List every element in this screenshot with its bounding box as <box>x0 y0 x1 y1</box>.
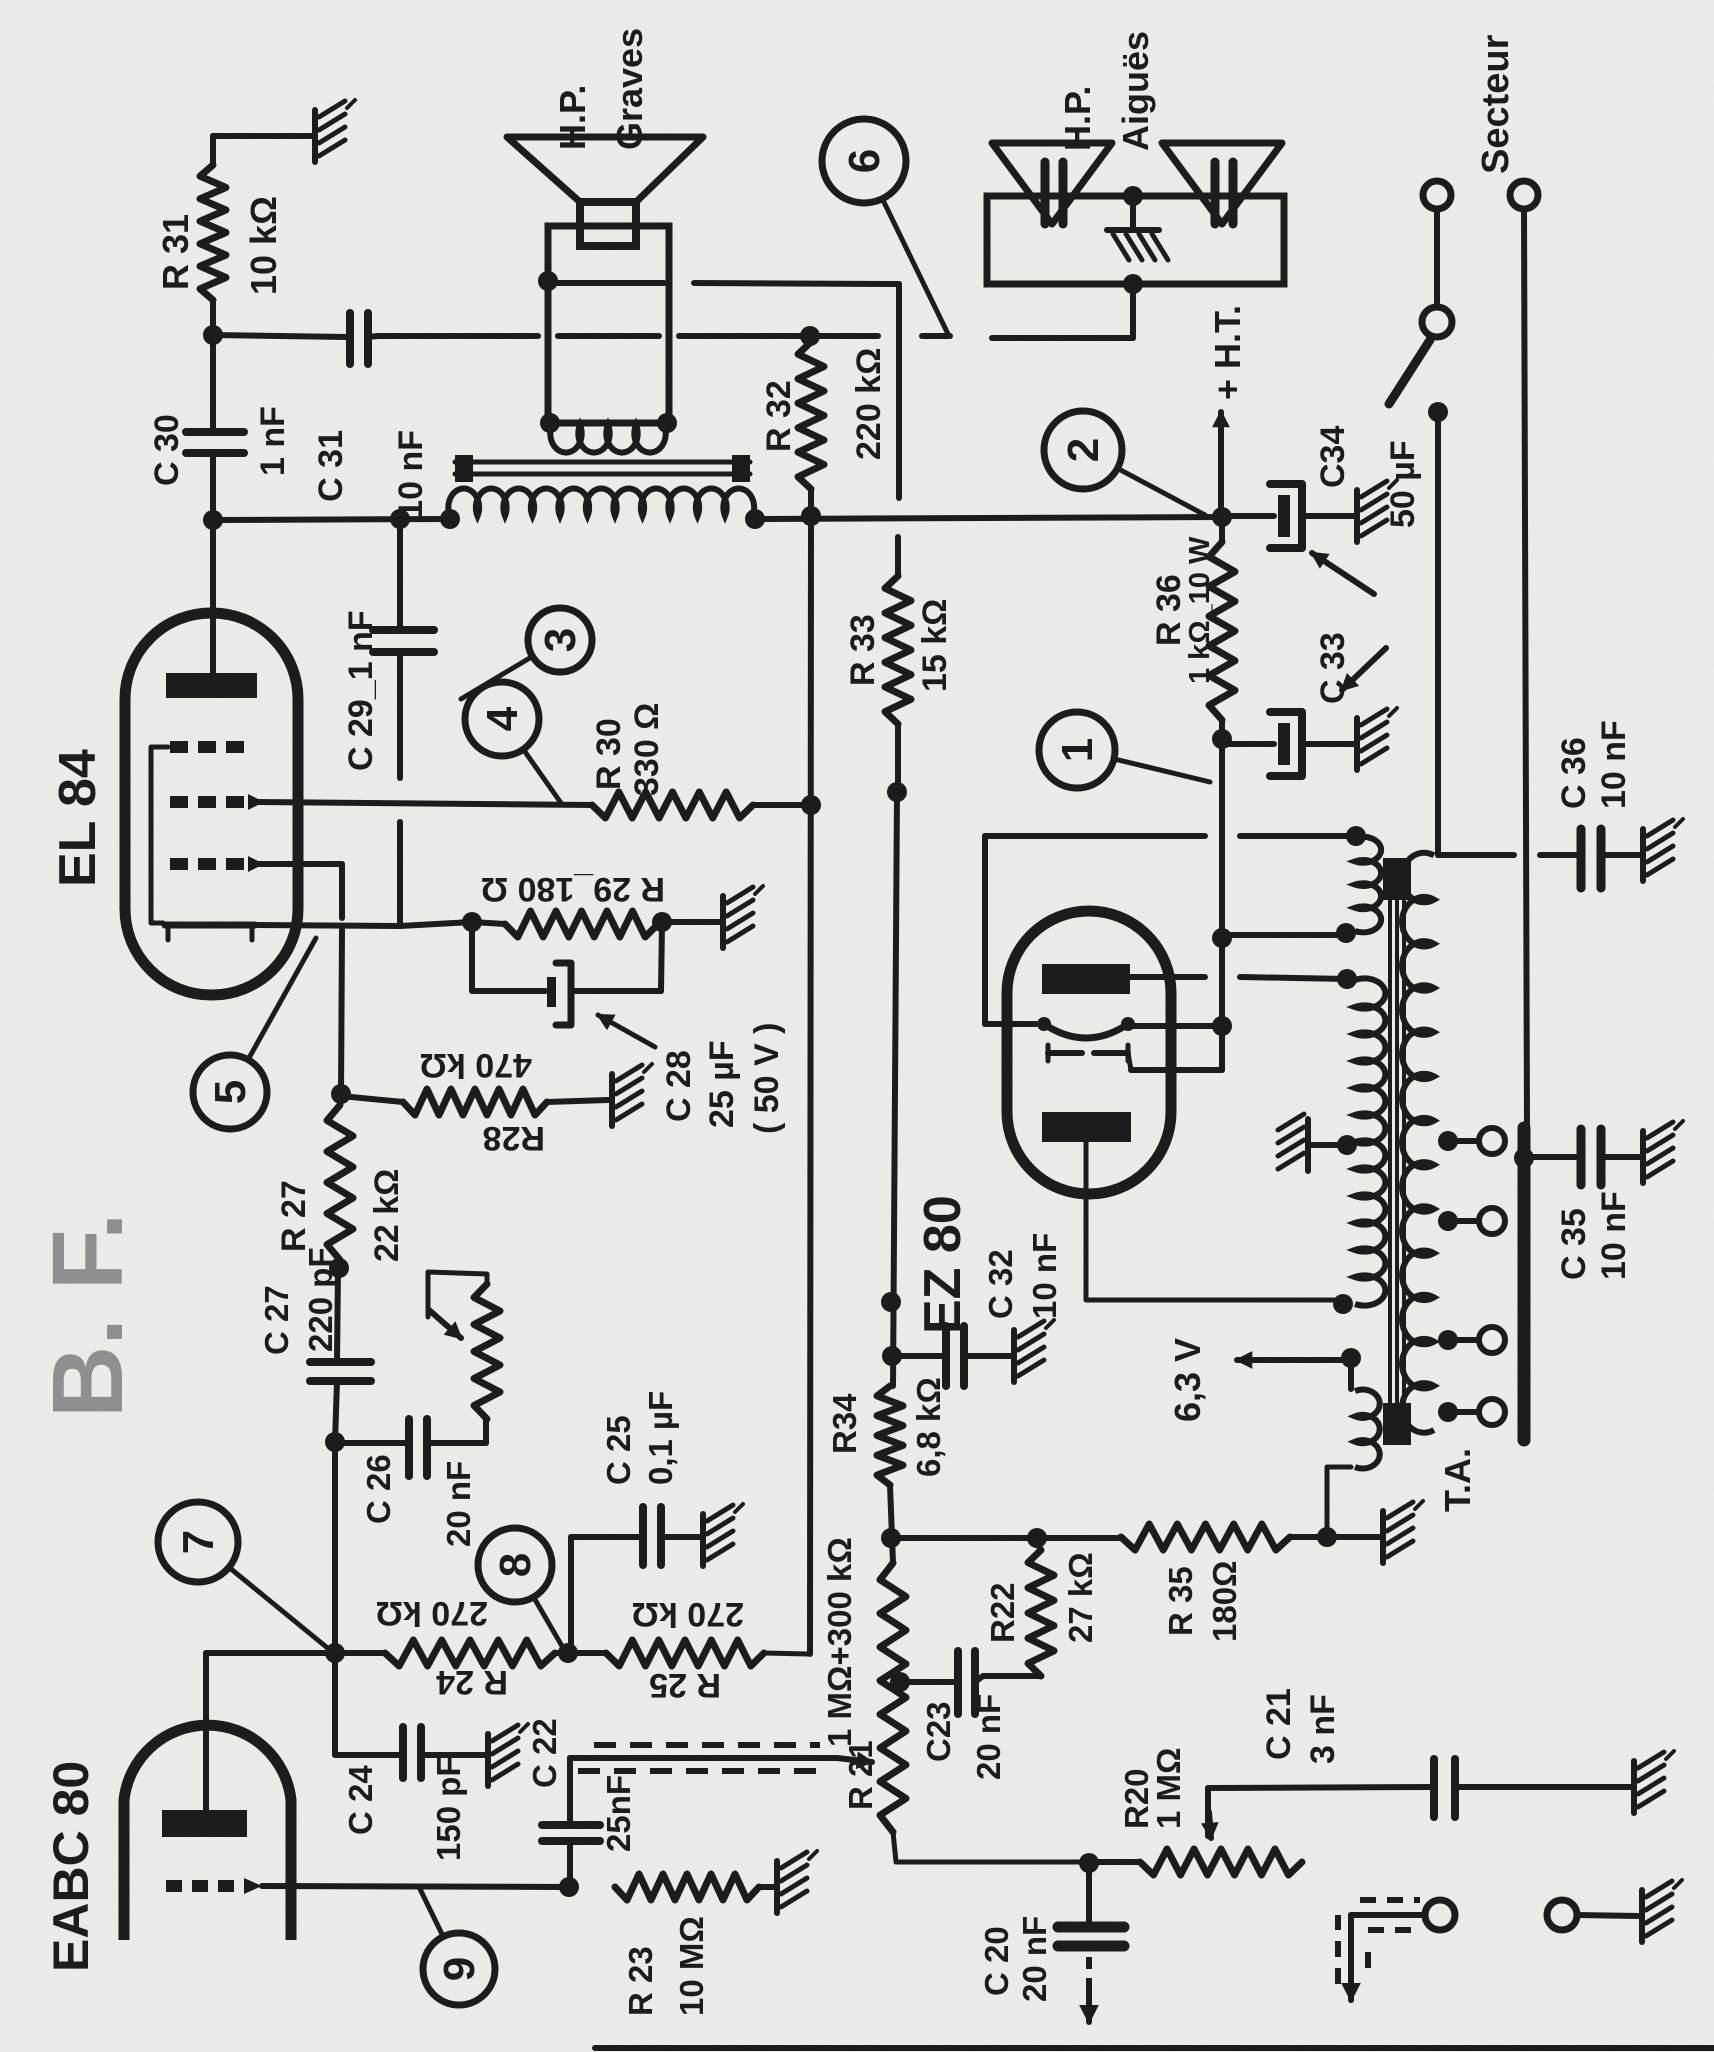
wire C29 right <box>397 519 403 630</box>
ground R23 <box>777 1851 817 1913</box>
wire switched live <box>1435 412 1441 855</box>
callout 1 <box>1039 712 1210 788</box>
svg-text:22 kΩ: 22 kΩ <box>368 1169 406 1262</box>
wire g1 left b <box>341 930 342 1094</box>
node dot screen feed <box>801 506 821 526</box>
callout 8 <box>478 1528 566 1653</box>
label C25 <box>600 1391 679 1485</box>
coil mains primary <box>1402 853 1434 1433</box>
svg-text:50 µF: 50 µF <box>1384 440 1422 528</box>
label HP Graves <box>552 28 650 150</box>
capacitor C28 plate <box>547 977 556 1007</box>
label C36 <box>1555 720 1633 809</box>
ground R28 <box>612 1064 652 1126</box>
label EABC80 <box>43 1761 99 1972</box>
svg-text:1 nF: 1 nF <box>254 406 292 476</box>
ground C36 <box>1643 819 1683 881</box>
coil EZ heater winding <box>1355 837 1381 933</box>
tap dot 2 <box>1438 1211 1458 1231</box>
wire C21 down <box>1455 1784 1632 1790</box>
node dot plate-rail junction <box>203 510 223 530</box>
speaker magnet <box>580 202 636 246</box>
wire R31 right <box>213 136 313 165</box>
svg-text:B. F.: B. F. <box>32 1212 144 1418</box>
label R35 <box>1162 1560 1243 1642</box>
label C29 <box>342 610 380 771</box>
ground R35 <box>1383 1501 1423 1563</box>
capacitor C25 <box>643 1507 661 1565</box>
label R30 <box>590 703 666 796</box>
label HP Aigues <box>1057 31 1156 151</box>
node dot spk bottom <box>657 413 677 433</box>
node dot chain-R22 <box>881 1528 901 1548</box>
svg-text:C 25: C 25 <box>600 1415 637 1485</box>
wire mains 2 <box>1524 209 1527 1128</box>
EABC80 anode <box>162 1810 247 1837</box>
svg-text:+ H.T.: + H.T. <box>1207 305 1248 400</box>
EL84 grid g3 <box>170 741 244 753</box>
switch lever <box>1389 340 1430 404</box>
wire rail-C31 seg2 <box>558 333 659 339</box>
wire C25 a <box>568 1537 574 1653</box>
svg-text:20 nF: 20 nF <box>970 1694 1007 1780</box>
svg-text:R 32: R 32 <box>760 380 798 452</box>
svg-text:C23: C23 <box>920 1701 957 1762</box>
svg-text:150 pF: 150 pF <box>430 1756 467 1861</box>
wire cath rect a <box>982 836 988 1024</box>
callout 9 <box>420 1889 495 2005</box>
resistor R20 <box>1140 1849 1302 1875</box>
wire R30 bottom <box>753 802 811 808</box>
wire C24 b <box>335 1752 401 1758</box>
wire fb chain <box>893 792 897 1386</box>
node dot spk top <box>540 413 560 433</box>
wire C36 a <box>1438 852 1514 858</box>
ground C24 <box>488 1724 528 1786</box>
svg-text:1 MΩ+300 kΩ: 1 MΩ+300 kΩ <box>821 1537 858 1747</box>
wire C28 b <box>472 988 545 994</box>
node dot R33 left <box>887 782 907 802</box>
wire R25 bottom <box>764 1653 808 1654</box>
svg-text:20 nF: 20 nF <box>1016 1916 1053 2002</box>
switch contact <box>1422 307 1452 337</box>
svg-text:C 35: C 35 <box>1555 1208 1593 1280</box>
svg-text:10 nF: 10 nF <box>392 430 430 519</box>
wire C26 a <box>335 1440 407 1446</box>
svg-text:0,1 µF: 0,1 µF <box>642 1391 679 1485</box>
label R23 <box>622 1916 710 2016</box>
node dot R22 tap <box>1027 1528 1047 1548</box>
capacitor C36 <box>1581 829 1601 888</box>
wire C28 a <box>469 922 475 991</box>
label 6.3V <box>1167 1338 1208 1422</box>
wire R28 top <box>341 1096 403 1102</box>
ground C25 <box>703 1504 743 1566</box>
resistor R33 <box>885 576 911 724</box>
page edge line <box>595 2045 1714 2051</box>
capacitor C26 <box>409 1419 427 1476</box>
wire C23 down <box>975 1676 983 1682</box>
capacitor C22 <box>542 1825 600 1841</box>
node dot R36 left <box>1212 729 1232 749</box>
capacitor C24 <box>403 1727 421 1778</box>
wire C32 g <box>964 1353 1012 1359</box>
tweeter box <box>987 196 1284 284</box>
wire C26 b <box>427 1440 486 1446</box>
svg-text:25nF: 25nF <box>600 1775 637 1852</box>
resistor R23 <box>615 1874 759 1900</box>
capacitor C27 <box>310 1362 371 1381</box>
svg-text:R34: R34 <box>826 1393 863 1454</box>
wire R36 right <box>1219 517 1225 542</box>
wire R21 corner <box>893 1832 1089 1862</box>
svg-text:8: 8 <box>491 1553 540 1577</box>
ground R29 <box>723 886 763 948</box>
resistor R36 <box>1209 542 1235 720</box>
svg-text:R 24: R 24 <box>436 1663 508 1701</box>
svg-text:R 30: R 30 <box>590 718 628 790</box>
arrow 6.3V <box>1237 1353 1351 1368</box>
label R27 <box>275 1169 406 1262</box>
wire screen bus <box>810 516 811 1654</box>
arrow C28 <box>598 1015 655 1047</box>
label C23 <box>920 1694 1007 1780</box>
wire C31 bottom <box>368 336 378 337</box>
label C21 <box>1260 1688 1342 1764</box>
label R31 <box>155 196 284 295</box>
wire switch a <box>1434 209 1440 307</box>
svg-text:C 32: C 32 <box>982 1249 1019 1319</box>
speaker cone <box>507 137 703 202</box>
resistor R35 <box>1121 1524 1290 1550</box>
EZ80 plate2 <box>1042 1112 1131 1142</box>
resistor R29 <box>505 911 658 937</box>
svg-text:R 23: R 23 <box>622 1946 659 2016</box>
svg-text:10 nF: 10 nF <box>1595 720 1633 809</box>
node dot C29 tap <box>390 509 410 529</box>
node dot C26 tap <box>325 1432 345 1452</box>
wire cath rect b <box>985 833 1205 839</box>
node dot HT top <box>1337 969 1357 989</box>
title BF <box>32 1212 144 1418</box>
arrow R20 tip <box>1203 1812 1217 1838</box>
wire B+ rail lower <box>752 517 1222 519</box>
label C31 <box>312 430 430 519</box>
terminal T1 <box>1425 1900 1455 1930</box>
dashed T1 a <box>1360 1897 1420 1903</box>
wire C22 b <box>567 1758 573 1825</box>
wire rail-C31 seg3 <box>679 333 878 339</box>
resistor R27 <box>327 1105 353 1260</box>
svg-text:R28: R28 <box>483 1119 545 1157</box>
svg-text:5: 5 <box>206 1080 255 1104</box>
wire EL84 anode to C30 <box>210 453 216 678</box>
tube EL84 envelope <box>125 613 298 995</box>
tap terminal 4 <box>1479 1399 1505 1425</box>
svg-text:Graves: Graves <box>609 28 650 150</box>
wire tweeter feed <box>1130 284 1136 338</box>
tap dot 1 <box>1438 1131 1458 1151</box>
EL84 grid g2 <box>170 794 264 810</box>
tap stub 3 <box>1448 1337 1478 1343</box>
svg-text:2: 2 <box>1059 438 1108 462</box>
ground R31 <box>315 100 355 162</box>
tweeter cap 1 <box>1045 162 1063 224</box>
core TA <box>1383 858 1411 1445</box>
svg-text:9: 9 <box>435 1957 484 1981</box>
tap dot 4 <box>1438 1402 1458 1422</box>
wire anode bus <box>332 1442 338 1651</box>
EL84 grid g1 <box>170 856 264 872</box>
svg-text:10 MΩ: 10 MΩ <box>673 1916 710 2016</box>
svg-text:7: 7 <box>174 1530 223 1554</box>
svg-text:C 31: C 31 <box>312 430 350 502</box>
label C22 <box>526 1718 637 1852</box>
wire R24 top <box>335 1650 385 1656</box>
wire C26 c <box>483 1419 489 1443</box>
arrow +HT <box>1214 412 1229 517</box>
tap dot 3 <box>1438 1330 1458 1350</box>
wire C24 a <box>332 1653 338 1754</box>
wire cathode link <box>1128 1023 1222 1029</box>
svg-text:R 36: R 36 <box>1150 574 1188 646</box>
node dot C27 right <box>329 1258 349 1278</box>
dashed gang b <box>594 1742 820 1748</box>
wire pot wire <box>428 1272 487 1317</box>
node dot C31 junction <box>203 325 223 345</box>
label C26 <box>360 1454 477 1547</box>
wire B+ rail upper <box>213 519 450 520</box>
tap terminal 3 <box>1479 1327 1505 1353</box>
svg-text:C 28: C 28 <box>660 1050 698 1122</box>
label C32 <box>982 1233 1063 1319</box>
label R20 <box>1118 1748 1187 1829</box>
tap stub 1 <box>1448 1138 1478 1144</box>
node dot R20C20 <box>1079 1853 1099 1873</box>
svg-text:C 20: C 20 <box>978 1926 1015 1996</box>
wire heater pin link <box>1131 1067 1222 1073</box>
wire C25 b <box>571 1534 641 1540</box>
wire C30 to R31 <box>210 300 216 432</box>
svg-text:10 nF: 10 nF <box>1026 1233 1063 1319</box>
wire R34-R21 <box>890 1485 893 1563</box>
ground tweeter <box>1107 230 1168 260</box>
tap terminal 2 <box>1479 1208 1505 1234</box>
wire plate1 a <box>1130 974 1205 980</box>
wire R33 lead left <box>895 724 901 790</box>
wire T2 <box>1577 1915 1638 1916</box>
node dot HT bottom <box>1333 1294 1353 1314</box>
wire C36 b <box>1540 852 1577 858</box>
capacitor C34 stack <box>1222 480 1397 548</box>
svg-text:H.P.: H.P. <box>552 85 593 150</box>
wire C31 top <box>213 335 346 337</box>
wire rail-C31 seg4 <box>922 333 950 339</box>
arrow pot wiper <box>429 1310 461 1338</box>
resistor R21 <box>880 1563 906 1832</box>
label C20 <box>978 1916 1053 2002</box>
socket pin 2 <box>1510 181 1538 209</box>
wire R22 corner <box>983 1673 1041 1679</box>
socket pin 1 <box>1423 181 1451 209</box>
capacitor C30 <box>186 432 244 453</box>
tube EZ80 envelope <box>1007 911 1171 1194</box>
svg-text:C 21: C 21 <box>1260 1688 1298 1760</box>
wire C22 a <box>567 1841 573 1887</box>
node dot OPT bottom <box>745 509 765 529</box>
wire C28 d <box>661 924 662 991</box>
node dot OPT top <box>440 509 460 529</box>
label R34 <box>826 1377 947 1477</box>
svg-text:3: 3 <box>536 628 585 652</box>
wire C36 c <box>1601 852 1641 858</box>
coil OPT secondary <box>550 425 665 453</box>
wire heaterwinding link <box>1222 932 1340 938</box>
svg-text:20 nF: 20 nF <box>440 1461 477 1547</box>
wire plate2 <box>1086 1138 1343 1300</box>
label R32 <box>760 348 888 460</box>
svg-text:Aiguës: Aiguës <box>1115 31 1156 151</box>
node dot tweeter gnd <box>1123 186 1143 206</box>
ground C35 <box>1643 1121 1683 1183</box>
svg-text:3 nF: 3 nF <box>1304 1694 1342 1764</box>
node dot switch <box>1428 402 1448 422</box>
label R28 <box>420 1046 545 1157</box>
dashed gang a <box>578 1768 820 1774</box>
capacitor C31 <box>350 313 368 364</box>
label EL84 <box>49 749 107 887</box>
wire R36 left <box>1219 720 1225 749</box>
node dot V1 cathode <box>1212 1016 1232 1036</box>
resistor R30 <box>592 792 753 818</box>
wire C32 down <box>892 1353 944 1359</box>
wire V1 <box>1219 749 1225 1070</box>
node dot grid-C22 <box>559 1877 579 1897</box>
svg-text:R 35: R 35 <box>1162 1566 1199 1636</box>
tap stub 4 <box>1448 1409 1478 1415</box>
speaker HP Graves box <box>548 226 669 423</box>
tap stub 2 <box>1448 1218 1478 1224</box>
arrow R21 wiper <box>837 1753 872 1767</box>
capacitor C20 <box>1058 1927 1124 1946</box>
label R25 <box>632 1595 744 1704</box>
label R33 <box>844 599 954 692</box>
svg-text:R22: R22 <box>984 1582 1021 1643</box>
resistor R34 <box>877 1386 903 1485</box>
node dot 63-R35 <box>1317 1527 1337 1547</box>
wire g1 down <box>257 861 342 867</box>
wire T1 <box>1351 1912 1425 1918</box>
wire cath rect d <box>985 1021 1036 1027</box>
wire rail tweeter seg <box>992 335 1133 341</box>
label +HT <box>1207 305 1248 400</box>
svg-text:270 kΩ: 270 kΩ <box>632 1595 744 1633</box>
label C27 <box>258 1247 339 1355</box>
svg-text:330 Ω: 330 Ω <box>628 703 666 796</box>
capacitor C32 <box>946 1326 964 1386</box>
coil HT winding <box>1355 978 1385 1305</box>
svg-text:270 kΩ: 270 kΩ <box>376 1594 488 1632</box>
svg-text:R 21: R 21 <box>842 1740 879 1810</box>
svg-text:T.A.: T.A. <box>1437 1448 1478 1512</box>
wire R22 lead <box>1037 1538 1040 1550</box>
node dot C32 tap <box>882 1346 902 1366</box>
selector bar <box>1518 1128 1531 1440</box>
node dot EABC anode node <box>325 1643 345 1663</box>
EZ80 plate1 <box>1042 964 1130 994</box>
wire R28 bottom <box>547 1100 608 1102</box>
arrow T1 <box>1343 1962 1359 2000</box>
svg-text:R 31: R 31 <box>155 214 196 290</box>
svg-text:15 kΩ: 15 kΩ <box>916 599 954 692</box>
wire R20 wiper <box>1208 1787 1434 1836</box>
wire plate1 b <box>1240 977 1347 979</box>
resistor R28 <box>403 1089 547 1115</box>
svg-text:R 33: R 33 <box>844 614 882 686</box>
resistor tone pot <box>474 1284 500 1419</box>
svg-text:C 27: C 27 <box>258 1285 295 1355</box>
arrow C20 <box>1081 1990 1097 2022</box>
svg-text:C34: C34 <box>1314 426 1352 488</box>
label Secteur <box>1475 34 1517 174</box>
svg-text:C 26: C 26 <box>360 1454 397 1524</box>
wire C27 line <box>337 1268 338 1362</box>
node dot spk feed <box>538 271 558 291</box>
svg-text:EABC 80: EABC 80 <box>43 1761 99 1972</box>
ground C21 <box>1634 1751 1674 1813</box>
wire anode lead EABC <box>206 1653 335 1810</box>
label C35 <box>1555 1191 1633 1280</box>
wire R33 lead right <box>895 537 901 576</box>
callout 2 <box>1044 411 1205 515</box>
svg-text:25 µF: 25 µF <box>703 1040 741 1128</box>
svg-text:C 33: C 33 <box>1314 632 1352 704</box>
wire R20 top <box>1089 1859 1140 1865</box>
svg-text:R 27: R 27 <box>275 1180 313 1252</box>
capacitor C21 <box>1434 1759 1455 1817</box>
wire C28 c <box>571 988 661 994</box>
node dot heaterw b <box>1336 923 1356 943</box>
resistor R25 <box>606 1640 764 1666</box>
wire tweeter gnd <box>1130 196 1136 230</box>
label R29 <box>481 870 665 908</box>
ground T2 <box>1642 1880 1682 1942</box>
node dot R29 bottom <box>652 912 672 932</box>
EL84 g3-cathode tie <box>151 747 168 923</box>
callout 4 <box>465 682 561 803</box>
tube EABC80 envelope <box>124 1725 291 1940</box>
node dot R27-R28 <box>331 1084 351 1104</box>
wire g1 left a <box>339 864 345 918</box>
node dot heaterw a <box>1346 826 1366 846</box>
wire C20 a <box>1086 1863 1092 1928</box>
capacitor C33 stack <box>1222 708 1397 776</box>
wire C35 b <box>1601 1154 1641 1160</box>
EZ80 heater <box>1048 1045 1131 1070</box>
svg-text:1 kΩ_10 W: 1 kΩ_10 W <box>1184 536 1216 684</box>
tap terminal 1 <box>1479 1128 1505 1154</box>
wire R25 top <box>568 1650 606 1656</box>
wire cathode down <box>255 922 505 926</box>
svg-text:R 29_180 Ω: R 29_180 Ω <box>481 870 665 908</box>
callout 6 <box>822 119 948 334</box>
dashed T1 d <box>1365 1942 1371 1968</box>
svg-text:470 kΩ: 470 kΩ <box>420 1046 532 1084</box>
node dot 63 a <box>1341 1348 1361 1368</box>
EL84 anode <box>166 673 257 698</box>
svg-text:10 kΩ: 10 kΩ <box>243 196 284 295</box>
svg-text:C 36: C 36 <box>1555 737 1593 809</box>
